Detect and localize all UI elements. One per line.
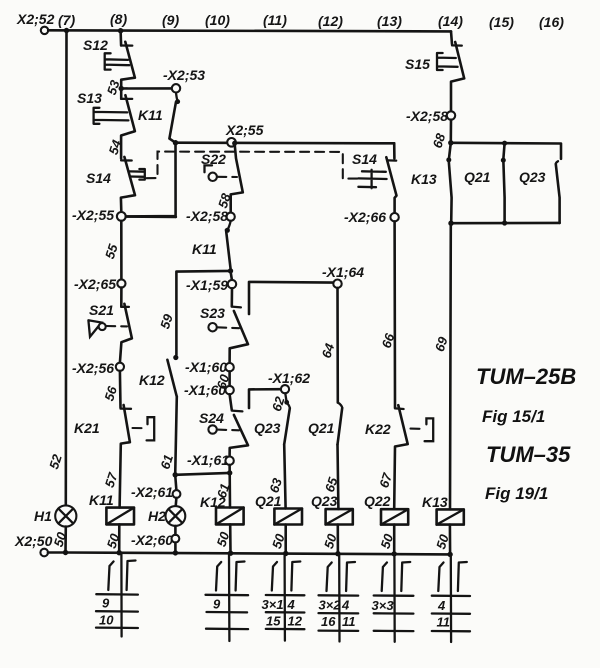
svg-text:-X2;65: -X2;65 xyxy=(74,276,116,292)
node X2;55 junction xyxy=(173,140,178,145)
wire rail corner down to S45 xyxy=(451,31,452,44)
contact cross-reference table Q23 xyxy=(319,555,359,642)
wire -X1;64 to S23 xyxy=(249,282,333,314)
svg-text:4: 4 xyxy=(341,598,350,613)
terminal -X2;53 xyxy=(172,84,180,92)
terminal -X2;66 xyxy=(390,213,398,221)
svg-text:-X2;56: -X2;56 xyxy=(72,360,114,376)
svg-text:S13: S13 xyxy=(77,90,102,106)
S23 pushbutton actuator xyxy=(208,323,239,331)
svg-text:S14: S14 xyxy=(86,170,111,186)
svg-text:61: 61 xyxy=(157,453,176,471)
pivot stub below -X2;58 xyxy=(225,221,231,233)
terminal -X2;61 xyxy=(173,490,181,498)
contactor coil Q23 xyxy=(326,509,353,524)
terminal -X1;64 xyxy=(333,280,341,288)
wire 50 Q23 coil to rail xyxy=(336,525,339,554)
relay contact K11 (NO, second) xyxy=(226,230,231,269)
svg-text:(13): (13) xyxy=(377,13,402,29)
svg-text:52: 52 xyxy=(46,452,65,471)
relay coil K12 xyxy=(216,508,244,525)
wire H2 lamp to -X2;60 and rail xyxy=(174,526,177,553)
relay coil K13 xyxy=(437,509,464,524)
svg-text:Fig 15/1: Fig 15/1 xyxy=(482,407,545,426)
svg-text:(9): (9) xyxy=(162,12,179,28)
svg-text:Q23: Q23 xyxy=(254,420,281,436)
svg-text:S23: S23 xyxy=(200,305,225,321)
contactor contact Q23 (NO) xyxy=(284,403,290,444)
svg-text:-X2;58: -X2;58 xyxy=(406,108,448,124)
wire node 53 to terminal -X2;53 xyxy=(121,87,172,90)
svg-text:H1: H1 xyxy=(34,508,52,524)
wire 69 xyxy=(449,223,452,509)
svg-text:K11: K11 xyxy=(192,241,217,257)
S14 second contact actuator plunger xyxy=(358,170,386,188)
svg-text:-X2;55: -X2;55 xyxy=(72,207,114,223)
S14 actuator plunger xyxy=(130,169,145,180)
relay contact K13 (NO, bank) xyxy=(446,143,451,223)
wire 63 to Q21 coil xyxy=(284,444,285,508)
contactor contact Q23 (NO, bank) xyxy=(556,161,560,223)
wire -X1;61 down to K12 coil xyxy=(228,465,231,508)
limit switch S13 (NC contact) xyxy=(121,89,135,159)
switch S24 contact xyxy=(230,394,248,456)
mechanical link dashed S14-S22-S44 xyxy=(147,152,359,179)
switch S22 contact xyxy=(231,143,243,212)
pivot dot wire 59 end xyxy=(173,355,178,360)
contact cross-reference table K11 xyxy=(96,553,138,637)
svg-text:H2: H2 xyxy=(148,508,166,524)
svg-text:X2;52: X2;52 xyxy=(16,11,55,27)
node lower bus Q21 junction xyxy=(502,220,507,225)
limit switch S14 second contact (NC) xyxy=(386,157,396,213)
svg-text:(10): (10) xyxy=(205,12,230,28)
node K11/59 junction xyxy=(228,268,233,273)
svg-text:9: 9 xyxy=(102,596,110,611)
wire 56 xyxy=(119,371,122,408)
terminal -X2;56 xyxy=(116,363,124,371)
wire 50 K11 coil to rail xyxy=(118,524,121,552)
contactor coil Q22 xyxy=(381,509,408,524)
svg-text:-X1;64: -X1;64 xyxy=(322,264,364,280)
limit switch S12 (NC contact) xyxy=(121,42,135,89)
svg-text:K12: K12 xyxy=(139,372,165,388)
terminal -X1;60 (upper) xyxy=(225,363,233,371)
svg-text:TUM–35: TUM–35 xyxy=(486,442,571,467)
switch S21 contact xyxy=(120,288,132,363)
svg-text:S14: S14 xyxy=(352,151,377,167)
svg-text:57: 57 xyxy=(102,470,121,489)
wire 50 K13 coil to rail xyxy=(449,525,452,555)
wire 50 K12 coil to rail xyxy=(229,524,232,553)
svg-text:-X2;61: -X2;61 xyxy=(131,484,173,500)
svg-text:K11: K11 xyxy=(89,492,114,508)
svg-text:63: 63 xyxy=(266,476,285,495)
wire 66 xyxy=(393,221,396,407)
svg-text:59: 59 xyxy=(157,312,176,331)
switch S23 contact xyxy=(230,288,248,363)
relay contact K21 (NC) xyxy=(120,405,131,508)
relay contact K12 (NO) xyxy=(167,360,176,397)
svg-text:(16): (16) xyxy=(539,14,564,30)
wire top supply rail xyxy=(48,30,451,31)
contact cross-reference table K12 xyxy=(206,554,249,641)
svg-text:15: 15 xyxy=(266,614,281,629)
S15 actuator plunger xyxy=(437,53,458,70)
S21 flag actuator xyxy=(88,320,127,336)
svg-text:Q21: Q21 xyxy=(255,493,282,509)
svg-text:68: 68 xyxy=(430,131,449,150)
svg-text:-X1;61: -X1;61 xyxy=(187,452,229,468)
svg-text:Q22: Q22 xyxy=(364,493,391,509)
svg-text:(14): (14) xyxy=(438,13,463,29)
limit switch S15 (NC contact) xyxy=(451,42,464,111)
wire parallel-bank upper bus xyxy=(451,143,561,159)
svg-text:-X1;60: -X1;60 xyxy=(185,359,227,375)
svg-text:K11: K11 xyxy=(138,107,163,123)
contact cross-reference table Q21 xyxy=(262,554,305,640)
terminal -X2;58 (S45) xyxy=(447,111,455,119)
wire node (8) down to S12 xyxy=(119,31,122,46)
pivot stub below -X2;53 xyxy=(175,93,180,105)
node (7) junction xyxy=(64,28,69,33)
contactor coil Q21 xyxy=(274,509,302,525)
svg-text:4: 4 xyxy=(437,598,446,613)
svg-text:-X2;58: -X2;58 xyxy=(186,208,228,224)
limit switch S14 (NC contact) xyxy=(121,157,135,212)
S13 actuator plunger xyxy=(94,108,129,124)
svg-text:(8): (8) xyxy=(110,11,127,27)
svg-text:3×2: 3×2 xyxy=(319,598,342,613)
node rail K12 junction xyxy=(228,551,233,556)
wire H2 node to -X1;61 node xyxy=(175,473,230,475)
wire -X2;58 down to node 68 xyxy=(449,120,452,143)
svg-text:(15): (15) xyxy=(489,14,514,30)
node rail Q23 junction xyxy=(335,551,340,556)
svg-text:69: 69 xyxy=(432,334,451,353)
svg-text:K22: K22 xyxy=(365,421,391,437)
node 53 junction xyxy=(119,86,124,91)
wire between -X1;60 terminals xyxy=(228,371,231,386)
pivot stub below -X1;62 xyxy=(284,393,289,404)
wire 50 Q21 coil to rail xyxy=(284,525,287,554)
terminal X2;52 xyxy=(41,27,48,34)
node (8) junction xyxy=(118,28,123,33)
terminal -X2;55 xyxy=(117,212,126,221)
svg-text:56: 56 xyxy=(101,384,120,403)
svg-text:-X1;60: -X1;60 xyxy=(184,382,226,398)
wire parallel-bank lower bus xyxy=(451,222,560,225)
svg-text:S15: S15 xyxy=(405,56,430,72)
terminal -X1;62 xyxy=(281,385,289,393)
wire -X2;55 to node 59 column xyxy=(126,215,176,218)
K21 latch linkage xyxy=(133,417,155,440)
svg-text:-X2;66: -X2;66 xyxy=(344,209,386,225)
wire junction down to -X1;59 xyxy=(231,271,232,280)
svg-text:S24: S24 xyxy=(199,410,224,426)
svg-text:Q23: Q23 xyxy=(519,169,546,185)
svg-text:X2;50: X2;50 xyxy=(14,533,53,549)
relay contact K11 (NO, node 53 to X2;55) xyxy=(169,102,176,143)
svg-text:3×1: 3×1 xyxy=(262,597,284,612)
svg-text:12: 12 xyxy=(288,614,303,629)
lamp H1 xyxy=(55,505,76,526)
lamp H2 xyxy=(166,498,186,526)
svg-text:Fig 19/1: Fig 19/1 xyxy=(485,484,548,503)
S22 pushbutton actuator xyxy=(205,165,238,181)
svg-text:67: 67 xyxy=(376,471,395,490)
svg-text:(7): (7) xyxy=(58,12,75,28)
wire 59 (K11 aux down branch) xyxy=(176,271,230,355)
svg-text:16: 16 xyxy=(321,614,336,629)
svg-text:-X2;60: -X2;60 xyxy=(131,532,173,548)
relay coil K11 xyxy=(106,508,134,525)
svg-text:S12: S12 xyxy=(83,37,108,53)
contact cross-reference table Q22 xyxy=(372,555,414,642)
terminal -X2;60 xyxy=(172,535,180,543)
svg-text:3×3: 3×3 xyxy=(372,598,395,613)
svg-text:-X1;59: -X1;59 xyxy=(186,277,228,293)
contactor contact Q21 (NO) xyxy=(338,403,343,445)
svg-text:(12): (12) xyxy=(318,13,343,29)
terminal -X1;60 (lower) xyxy=(225,386,233,394)
wire X2;55 bus corner down to S44 xyxy=(393,143,396,158)
relay contact K22 (NC) xyxy=(394,405,408,508)
svg-text:X2;55: X2;55 xyxy=(225,122,264,138)
wire 50 Q22 coil to rail xyxy=(393,525,396,554)
node lower bus K13 junction xyxy=(448,221,453,226)
svg-text:K21: K21 xyxy=(74,420,100,436)
node rail Q22 junction xyxy=(392,551,397,556)
wire X2;50 to rail xyxy=(48,551,66,554)
svg-text:64: 64 xyxy=(319,341,338,360)
terminal -X1;61 xyxy=(225,457,233,465)
svg-text:TUM–25B: TUM–25B xyxy=(476,364,576,389)
svg-text:9: 9 xyxy=(213,597,221,612)
contactor contact Q21 (NO, bank) xyxy=(501,143,506,223)
S12 actuator plunger xyxy=(105,53,130,69)
svg-text:Q21: Q21 xyxy=(308,420,335,436)
wire X2;55 junction down to -X2;55 xyxy=(126,143,176,217)
node 61/H2 junction xyxy=(173,472,178,477)
wire H2 node down xyxy=(175,475,176,490)
terminal X2;55 xyxy=(227,138,236,147)
svg-text:Q23: Q23 xyxy=(311,493,338,509)
svg-text:55: 55 xyxy=(102,242,121,261)
svg-text:K13: K13 xyxy=(422,494,448,510)
wire 52 (lamp H1 branch) xyxy=(65,31,68,506)
node Q21 branch junction xyxy=(502,141,507,146)
wire bottom rail 50 xyxy=(66,553,451,555)
svg-text:(11): (11) xyxy=(263,12,287,28)
terminal -X2;65 xyxy=(117,279,125,287)
node rail H2 junction xyxy=(173,550,178,555)
svg-text:Q21: Q21 xyxy=(464,169,491,185)
svg-text:S21: S21 xyxy=(89,302,114,318)
wire 65 to Q23 coil xyxy=(336,445,339,510)
terminal X2;50 xyxy=(40,549,48,557)
node rail H1 junction xyxy=(63,550,68,555)
node rail K11 junction xyxy=(117,550,122,555)
svg-text:4: 4 xyxy=(287,597,296,612)
svg-text:-X1;62: -X1;62 xyxy=(268,370,310,386)
wire -X1;62 to S24 xyxy=(249,389,281,408)
wire -X2;55 down to -X2;65 xyxy=(120,221,123,280)
svg-text:10: 10 xyxy=(99,613,114,628)
node 68 junction xyxy=(448,140,453,145)
wire X2;55 horizontal bus xyxy=(176,141,395,144)
wire 50 lamp H1 to rail xyxy=(64,527,67,553)
svg-text:K13: K13 xyxy=(411,171,437,187)
node S22 branch junction xyxy=(232,141,237,146)
wire 61 K12 contact down to H2 node xyxy=(175,397,177,475)
wire 64 xyxy=(336,288,339,403)
K22 latch linkage xyxy=(411,418,434,441)
terminal -X1;59 xyxy=(228,280,236,288)
contact cross-reference table K13 xyxy=(432,555,470,643)
node rail Q21 junction xyxy=(283,551,288,556)
svg-text:-X2;53: -X2;53 xyxy=(163,67,205,83)
node rail K13 junction xyxy=(447,552,452,557)
terminal -X2;58 xyxy=(227,213,235,221)
svg-text:11: 11 xyxy=(342,614,356,629)
S24 pushbutton actuator xyxy=(208,425,239,433)
node -X1;61 junction xyxy=(227,470,232,475)
svg-text:11: 11 xyxy=(437,615,451,630)
